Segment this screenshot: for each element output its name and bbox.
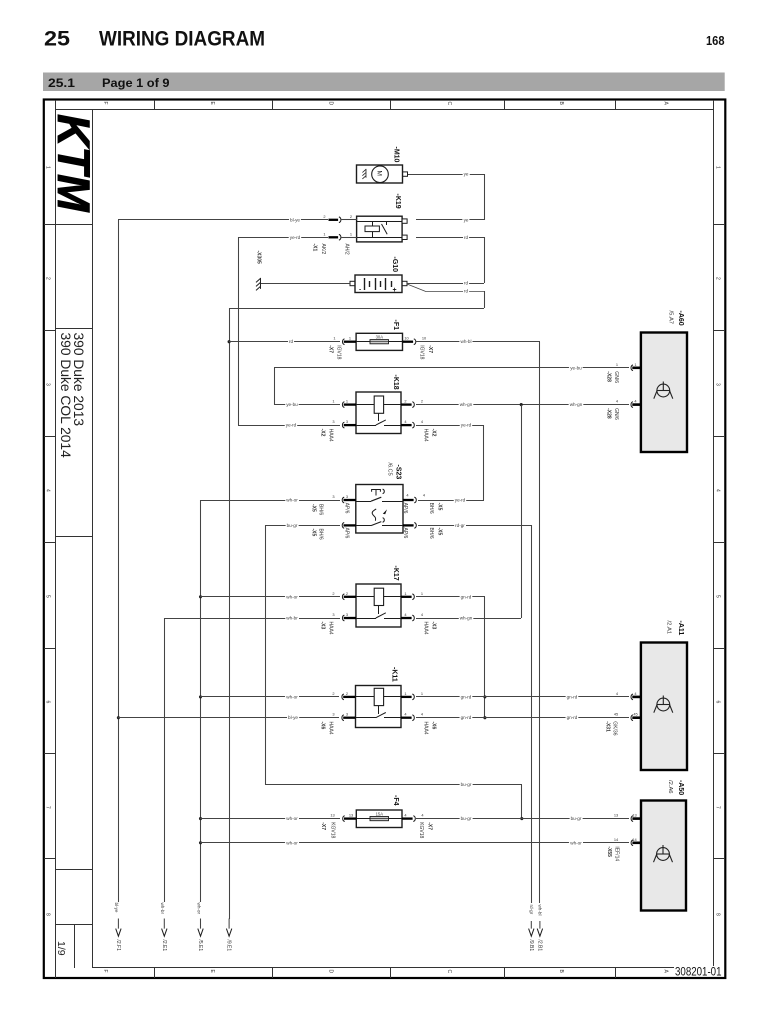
svg-text:1/9: 1/9	[55, 941, 67, 956]
fuse F4 wire through	[356, 818, 402, 820]
wire wh-or to A50 pin14	[200, 842, 629, 844]
wire bu-gr S23 pin5 left	[266, 525, 340, 527]
wire ye-bu to A60 pin1	[274, 367, 629, 369]
svg-text:AP/6: AP/6	[344, 503, 350, 514]
title box divider 3	[56, 536, 92, 538]
svg-text:-S23: -S23	[395, 465, 402, 480]
wire wh-or to K17 pin2	[200, 596, 340, 598]
wire rd battery tap diagonal	[408, 284, 426, 291]
ground X305	[256, 278, 261, 291]
svg-text:3: 3	[332, 712, 334, 717]
connector F1 right	[403, 341, 414, 343]
svg-text:3: 3	[332, 494, 334, 499]
svg-text:bu-gr: bu-gr	[461, 782, 472, 787]
svg-text:1: 1	[332, 399, 334, 404]
svg-text:/9.B1: /9.B1	[528, 940, 534, 952]
svg-text:13: 13	[349, 813, 353, 818]
svg-text:/6.C5: /6.C5	[387, 463, 393, 476]
wire rd feed horizontal	[229, 308, 484, 310]
svg-text:wh-or: wh-or	[286, 594, 298, 599]
svg-text:5: 5	[715, 595, 721, 598]
svg-text:HAA4: HAA4	[423, 429, 429, 442]
svg-text:wh-or: wh-or	[286, 694, 298, 699]
relay K11 box and internals	[356, 686, 402, 728]
svg-text:3: 3	[45, 383, 51, 386]
wire ground X305 to battery	[261, 283, 350, 285]
svg-text:2: 2	[346, 691, 348, 696]
svg-text:-X2: -X2	[320, 429, 326, 437]
connector K17 pin3	[342, 615, 344, 621]
connector -X31 pin45	[631, 715, 633, 721]
svg-text:ye-rd: ye-rd	[290, 235, 301, 240]
svg-text:wh-or: wh-or	[570, 840, 582, 845]
left border strip line	[55, 100, 57, 978]
svg-text:bu-gr: bu-gr	[287, 523, 298, 528]
wire ye-bu vertical	[274, 368, 276, 405]
svg-text:HAA4: HAA4	[328, 722, 334, 735]
svg-text:ye-bu: ye-bu	[286, 402, 298, 407]
wire ye-rd S23 pin4	[418, 500, 484, 502]
svg-text:BH/6: BH/6	[428, 503, 434, 514]
svg-text:GN/6: GN/6	[613, 408, 619, 420]
svg-text:1: 1	[421, 591, 423, 596]
svg-text:rd-gr: rd-gr	[529, 905, 534, 915]
wire rd K19 pin1 right	[416, 237, 484, 239]
wire rd to F1	[229, 341, 340, 343]
svg-text:IGV18: IGV18	[336, 345, 342, 359]
wire ye-rd vertical	[238, 237, 240, 425]
wire bu-gr horizontal	[266, 784, 522, 786]
svg-text:-A60: -A60	[677, 311, 684, 326]
svg-text:3: 3	[346, 712, 348, 717]
svg-text:1: 1	[349, 336, 351, 341]
relay K18 box and internals	[356, 392, 401, 434]
connector K18 pin2	[401, 403, 412, 405]
battery G10 plates	[364, 278, 366, 290]
junction bu-gr F4	[520, 817, 523, 820]
svg-text:13: 13	[614, 813, 618, 818]
switch S23 box	[356, 485, 403, 534]
svg-text:IEF/14: IEF/14	[614, 846, 620, 861]
svg-text:AP/6: AP/6	[402, 528, 408, 539]
wire wh-br vertical	[164, 618, 166, 902]
svg-text:-K11: -K11	[391, 667, 398, 682]
svg-text:7: 7	[45, 806, 51, 809]
connector -X55 pin13	[631, 816, 633, 822]
svg-text:-X28: -X28	[606, 371, 612, 382]
junction bl-ye K11	[117, 716, 120, 719]
svg-text:GN/6: GN/6	[613, 371, 619, 383]
svg-text:bu-gr: bu-gr	[461, 816, 472, 821]
svg-text:-F4: -F4	[392, 795, 399, 806]
svg-text:1: 1	[421, 691, 423, 696]
svg-text:ye: ye	[464, 172, 469, 177]
connector -X55 pin14	[631, 840, 633, 846]
connector S23 pin6	[403, 524, 414, 526]
svg-text:/2.A6: /2.A6	[667, 780, 673, 794]
wire ye-rd K19 pin1 left	[238, 237, 328, 239]
svg-text:-A11: -A11	[677, 621, 684, 636]
junction gn-rd K11 pin4	[483, 716, 486, 719]
svg-text:-X6: -X6	[431, 722, 437, 730]
svg-text:-X305: -X305	[256, 251, 262, 265]
control unit A11 symbol	[654, 696, 673, 713]
svg-text:/5.A7: /5.A7	[668, 311, 674, 325]
svg-text:wh-bl: wh-bl	[461, 339, 472, 344]
connector S23 pin4	[403, 499, 414, 501]
svg-text:1: 1	[404, 691, 406, 696]
connector F4 left	[343, 816, 345, 822]
svg-text:25: 25	[44, 26, 70, 51]
title box divider 2	[56, 328, 92, 330]
svg-text:13: 13	[330, 813, 334, 818]
connector -X28 pin1	[631, 365, 633, 371]
wire wh-gn K17 pin4	[416, 618, 521, 620]
wire rd vertical to battery	[484, 237, 486, 283]
wire rd-gr S23 pin6 right	[418, 525, 531, 527]
svg-text:-X31: -X31	[605, 721, 611, 732]
switch S23 internals	[356, 501, 371, 503]
svg-text:2: 2	[346, 591, 348, 596]
svg-text:/2.A1: /2.A1	[666, 621, 672, 635]
page box divider	[74, 924, 76, 968]
svg-text:M: M	[376, 171, 383, 176]
connector S23 pin5	[342, 523, 344, 529]
svg-text:wh-or: wh-or	[286, 840, 298, 845]
svg-text:/9.E1: /9.E1	[226, 940, 232, 952]
connector K18 pin1	[342, 402, 344, 408]
svg-text:-X28: -X28	[606, 408, 612, 419]
svg-text:rd: rd	[464, 281, 469, 286]
wire ye K19 pin2	[416, 219, 484, 221]
svg-text:45: 45	[633, 712, 637, 717]
wire ye vertical	[484, 174, 486, 220]
svg-text:168: 168	[706, 33, 725, 48]
svg-text:-X5: -X5	[437, 503, 443, 511]
svg-text:/2.E1: /2.E1	[161, 940, 167, 952]
fuse F1 element	[370, 340, 389, 344]
wire wh-bl F1 right	[416, 341, 540, 343]
title column right edge	[92, 110, 94, 968]
KTM logo box divider	[56, 224, 92, 226]
motor M10 ground symbol	[362, 169, 366, 179]
svg-text:wh-bl: wh-bl	[538, 905, 543, 916]
svg-text:1: 1	[616, 362, 618, 367]
junction wh-or K11	[199, 695, 202, 698]
svg-text:D: D	[328, 970, 334, 974]
control unit A50 symbol	[654, 845, 673, 862]
connector K11 pin4	[401, 717, 412, 719]
svg-text:C: C	[446, 102, 452, 106]
svg-text:-K19: -K19	[394, 194, 401, 209]
wire bl-ye K19 pin2 left	[118, 219, 328, 221]
title box divider 4	[56, 869, 92, 871]
svg-text:1: 1	[323, 231, 325, 236]
svg-text:rd: rd	[464, 235, 469, 240]
arrow to /9.E1	[228, 919, 230, 930]
svg-text:1: 1	[346, 399, 348, 404]
svg-text:-A50: -A50	[677, 780, 684, 795]
svg-text:wh-gn: wh-gn	[460, 616, 473, 621]
svg-text:D: D	[328, 102, 334, 106]
svg-text:gn-rd: gn-rd	[461, 594, 472, 599]
svg-text:-X7: -X7	[328, 345, 334, 353]
svg-text:3: 3	[715, 383, 721, 386]
bottom border strip line	[92, 967, 674, 969]
svg-text:-X5: -X5	[437, 528, 443, 536]
svg-text:3: 3	[346, 612, 348, 617]
junction wh-or A50	[199, 841, 202, 844]
wire wh-gn K18 pin2 to A60 pin4	[416, 404, 629, 406]
svg-text:2: 2	[332, 591, 334, 596]
junction rd F1	[228, 340, 231, 343]
wire bl-ye vertical	[118, 220, 120, 902]
svg-text:2: 2	[332, 691, 334, 696]
svg-text:HAA4: HAA4	[423, 622, 429, 635]
svg-text:AK/2: AK/2	[320, 244, 326, 255]
svg-text:KGV18: KGV18	[330, 822, 336, 838]
connector -X28 pin4	[631, 402, 633, 408]
svg-text:GK/36: GK/36	[612, 721, 618, 735]
wire rd battery tap	[425, 291, 484, 293]
connector K17 pin2	[342, 594, 344, 600]
relay K19 pin stubs	[402, 219, 407, 223]
fuse F4 box	[356, 810, 402, 828]
svg-text:1: 1	[350, 231, 352, 236]
wire wh-bl vertical	[539, 342, 541, 903]
svg-text:KTM: KTM	[48, 114, 99, 213]
wire wh-gn vertical	[521, 405, 523, 618]
svg-text:13: 13	[632, 813, 636, 818]
svg-text:-X1: -X1	[312, 244, 318, 252]
control unit A11 box	[641, 643, 687, 771]
wire gn-rd K11 pin4 to A11 pin45	[416, 717, 629, 719]
svg-text:-X7: -X7	[427, 345, 433, 353]
svg-text:ye-bu: ye-bu	[570, 365, 582, 370]
connector F1 left	[342, 339, 344, 345]
junction gn-rd K11 pin1	[483, 695, 486, 698]
fuse F1 wire through	[356, 341, 402, 343]
connector K11 pin2	[342, 694, 344, 700]
svg-text:-X6: -X6	[320, 722, 326, 730]
wire wh-or vertical	[200, 500, 202, 902]
connector K18 pin4	[401, 424, 412, 426]
arrow to /2.B1	[539, 921, 541, 929]
svg-text:-X2: -X2	[431, 429, 437, 437]
top border strip line	[56, 109, 714, 111]
svg-text:AP/6: AP/6	[344, 528, 350, 539]
svg-text:-M10: -M10	[393, 147, 400, 163]
arrow to /5.E1	[200, 919, 202, 930]
svg-text:-: -	[359, 287, 361, 294]
svg-text:bu-gr: bu-gr	[571, 816, 582, 821]
svg-text:/5.E1: /5.E1	[197, 940, 203, 952]
svg-text:wh-gn: wh-gn	[460, 402, 473, 407]
wire rd feed vertical	[229, 308, 231, 919]
relay K17 box and internals	[356, 584, 401, 627]
svg-text:2: 2	[45, 277, 51, 280]
connector S23 pin3	[342, 497, 344, 503]
svg-text:gn-rd: gn-rd	[461, 694, 472, 699]
svg-text:1: 1	[715, 166, 721, 169]
svg-text:BH/6: BH/6	[428, 528, 434, 539]
svg-text:3: 3	[332, 419, 334, 424]
relay K19 box	[357, 216, 403, 242]
svg-text:8: 8	[715, 913, 721, 916]
svg-text:bl-ye: bl-ye	[290, 217, 300, 222]
svg-text:390 Duke COL 2014: 390 Duke COL 2014	[58, 333, 73, 459]
svg-text:wh-or: wh-or	[196, 903, 201, 915]
svg-text:-K18: -K18	[392, 375, 399, 390]
svg-text:2: 2	[404, 399, 406, 404]
svg-text:8: 8	[45, 913, 51, 916]
wire gn-rd K11 pin1 to A11 pin4	[416, 696, 629, 698]
svg-text:C: C	[446, 970, 452, 974]
wire wh-or to K11 pin2	[200, 696, 339, 698]
control unit A60 box	[641, 333, 687, 453]
svg-text:-X5: -X5	[311, 504, 317, 512]
svg-text:/2.B1: /2.B1	[536, 940, 542, 952]
wire ye-rd vertical to S23	[483, 425, 485, 500]
svg-text:-X7: -X7	[320, 822, 326, 830]
wire ye-bu K18 pin1 left	[274, 404, 340, 406]
arrow to /2.F1	[117, 919, 119, 930]
bottom strip tick marks	[154, 968, 156, 978]
svg-text:5: 5	[45, 595, 51, 598]
svg-text:rd-gr: rd-gr	[455, 523, 465, 528]
wire wh-or S23 pin3 left	[200, 500, 340, 502]
svg-text:Page 1 of 9: Page 1 of 9	[102, 76, 170, 90]
wire gn-rd vertical	[484, 597, 486, 718]
svg-text:1: 1	[404, 591, 406, 596]
svg-text:BH/6: BH/6	[318, 504, 324, 515]
svg-text:-X7: -X7	[427, 822, 433, 830]
arrow to /2.E1	[163, 919, 165, 930]
svg-text:-G10: -G10	[391, 257, 398, 273]
wire bu-gr vertical	[265, 525, 267, 785]
svg-text:15A: 15A	[376, 811, 384, 816]
svg-text:-X3: -X3	[320, 622, 326, 630]
svg-text:2: 2	[350, 214, 352, 219]
section gray bar	[43, 73, 725, 92]
connector F4 right	[402, 817, 413, 819]
svg-text:3: 3	[346, 494, 348, 499]
control unit A60 symbol	[654, 382, 673, 399]
svg-text:HAA4: HAA4	[328, 429, 334, 442]
svg-text:30A: 30A	[376, 334, 384, 339]
svg-text:2: 2	[715, 277, 721, 280]
right border strip line	[713, 100, 715, 968]
svg-text:-X55: -X55	[606, 846, 612, 857]
wire wh-br K17 pin3 left	[164, 618, 340, 620]
svg-text:wh-or: wh-or	[286, 498, 298, 503]
svg-text:wh-or: wh-or	[286, 816, 298, 821]
svg-text:25.1: 25.1	[48, 76, 75, 90]
right strip tick marks	[714, 224, 725, 226]
top strip tick marks	[154, 100, 156, 110]
fuse F1 box	[356, 333, 402, 350]
svg-text:WIRING DIAGRAM: WIRING DIAGRAM	[99, 26, 265, 51]
svg-text:/2.F1: /2.F1	[115, 940, 121, 952]
wire rd-gr vertical	[531, 525, 533, 903]
svg-text:4: 4	[715, 489, 721, 492]
wire bu-gr F4 to A50 pin13	[416, 818, 629, 820]
motor M10 box	[357, 165, 403, 183]
wire ye M10 to corner	[408, 174, 484, 176]
svg-text:F: F	[102, 102, 108, 105]
svg-text:ye-rd: ye-rd	[461, 423, 472, 428]
svg-text:ye: ye	[464, 217, 469, 222]
svg-text:rd: rd	[464, 289, 469, 294]
wire gn-rd K17 pin1 right	[416, 596, 485, 598]
svg-text:KGV18: KGV18	[418, 822, 424, 838]
svg-text:45: 45	[614, 712, 618, 717]
connector -X31 pin4	[631, 694, 633, 700]
wire ye-rd to K18 pin3	[238, 425, 340, 427]
svg-text:bl-ye: bl-ye	[114, 903, 119, 913]
battery G10 pin stubs	[350, 281, 355, 285]
junction wh-or K17	[199, 595, 202, 598]
svg-text:4: 4	[45, 489, 51, 492]
connector -X1 pin 2	[329, 219, 339, 221]
svg-text:ye-rd: ye-rd	[286, 423, 297, 428]
junction wh-gn	[520, 403, 523, 406]
svg-text:-F1: -F1	[392, 320, 399, 331]
svg-text:AP/6: AP/6	[402, 503, 408, 514]
wire wh-or to F4	[200, 818, 340, 820]
svg-text:-X3: -X3	[431, 622, 437, 630]
battery G10 box	[355, 275, 402, 293]
svg-text:-K17: -K17	[392, 566, 399, 581]
junction wh-or F4	[199, 817, 202, 820]
svg-text:6: 6	[715, 701, 721, 704]
svg-text:wh-br: wh-br	[160, 903, 165, 915]
svg-text:308201-01: 308201-01	[675, 967, 722, 979]
title box divider 5	[56, 924, 92, 926]
motor M10 circle	[372, 166, 389, 183]
wire rd battery plus	[407, 283, 484, 285]
svg-text:2: 2	[421, 399, 423, 404]
svg-text:6: 6	[45, 701, 51, 704]
svg-text:gn-rd: gn-rd	[567, 694, 578, 699]
svg-text:1: 1	[634, 362, 636, 367]
svg-text:3: 3	[332, 612, 334, 617]
svg-text:3: 3	[346, 419, 348, 424]
svg-text:HAA4: HAA4	[423, 722, 429, 735]
svg-text:HAA4: HAA4	[328, 622, 334, 635]
svg-text:F: F	[102, 970, 108, 973]
relay K19 internals coil and switch	[357, 221, 402, 223]
motor M10 pin stub	[403, 172, 408, 176]
connector K11 pin1	[401, 696, 412, 698]
left strip tick marks	[44, 224, 56, 226]
svg-text:gn-rd: gn-rd	[567, 715, 578, 720]
svg-text:AH/2: AH/2	[344, 244, 350, 255]
wire ye-rd K18 pin4 right	[416, 425, 484, 427]
fuse F4 element	[370, 817, 389, 821]
svg-text:-X5: -X5	[311, 529, 317, 537]
svg-text:+: +	[393, 287, 397, 294]
control unit A50 box	[641, 801, 686, 911]
svg-text:1: 1	[333, 336, 335, 341]
svg-text:wh-br: wh-br	[286, 616, 298, 621]
svg-text:bl-ye: bl-ye	[288, 715, 298, 720]
connector K18 pin3	[342, 422, 344, 428]
svg-text:wh-gn: wh-gn	[570, 402, 583, 407]
wire bl-ye to K11 pin3	[118, 717, 339, 719]
wire rd tap vertical	[484, 291, 486, 308]
svg-text:BH/6: BH/6	[318, 529, 324, 540]
